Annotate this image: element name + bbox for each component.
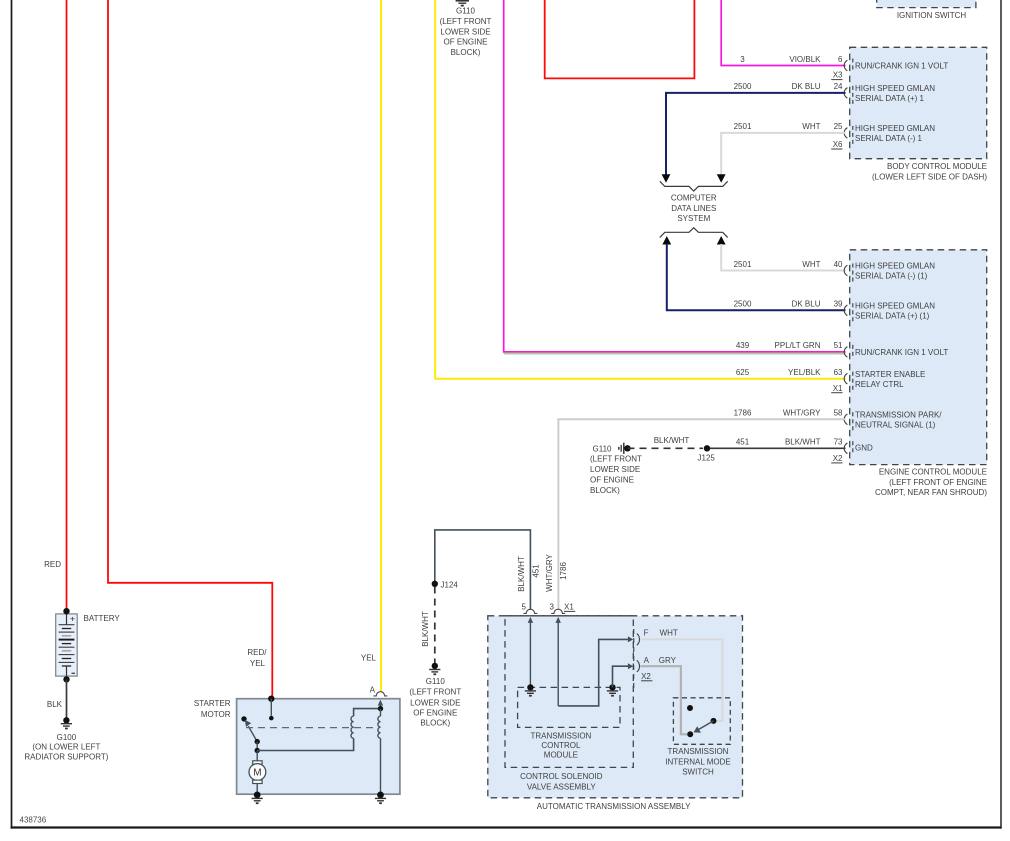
starter pin A (370, 685, 388, 711)
wire RED battery positive feed (66, 0, 68, 611)
starter ground left (252, 792, 263, 804)
svg-text:BLK/WHT: BLK/WHT (654, 436, 690, 445)
junction J125 (698, 445, 716, 463)
svg-text:+: + (70, 613, 75, 623)
svg-text:HIGH SPEED GMLAN: HIGH SPEED GMLAN (855, 84, 935, 93)
connector pin F (628, 629, 678, 646)
label starter motor (194, 699, 231, 719)
battery B1 (56, 608, 77, 683)
svg-text:A: A (370, 685, 376, 694)
ECM pin 51 (736, 341, 948, 359)
label battery (84, 614, 121, 623)
svg-text:6: 6 (838, 55, 843, 64)
ground G110 mid (sideways) (593, 443, 624, 454)
svg-text:NEUTRAL SIGNAL (1): NEUTRAL SIGNAL (1) (855, 421, 936, 430)
wire BLK/WHT 451 to ECM pin 73 (710, 447, 846, 449)
svg-text:BLK/WHT: BLK/WHT (421, 611, 430, 647)
svg-text:RED: RED (44, 560, 61, 569)
svg-text:SERIAL DATA (+) (1): SERIAL DATA (+) (1) (855, 311, 930, 320)
TCM ground left (525, 684, 536, 696)
mode switch contact P (687, 705, 693, 711)
mechanical link dashed (246, 727, 374, 729)
svg-text:3: 3 (740, 55, 745, 64)
svg-text:(LOWER LEFT SIDE OF DASH): (LOWER LEFT SIDE OF DASH) (872, 172, 987, 181)
svg-text:SERIAL DATA (-) 1: SERIAL DATA (-) 1 (855, 134, 923, 143)
svg-text:63: 63 (834, 368, 843, 377)
svg-text:OF ENGINE: OF ENGINE (443, 38, 487, 47)
body control module U1 (850, 47, 987, 158)
svg-text:MOTOR: MOTOR (201, 710, 231, 719)
svg-text:VIO/BLK: VIO/BLK (789, 55, 821, 64)
svg-text:MODULE: MODULE (544, 751, 578, 760)
svg-text:58: 58 (834, 409, 843, 418)
svg-text:BLOCK): BLOCK) (590, 486, 620, 495)
wire WHT/GRY 1786 ECM to transmission pin 3 (545, 419, 846, 610)
svg-text:BODY CONTROL MODULE: BODY CONTROL MODULE (887, 162, 987, 171)
label control solenoid valve assembly (520, 772, 603, 791)
label G110 top (440, 7, 492, 58)
svg-text:CONTROL SOLENOID: CONTROL SOLENOID (520, 772, 603, 781)
ECM pin 39 (734, 300, 936, 325)
wire BLK battery to G100 (47, 679, 67, 717)
svg-text:COMPUTER: COMPUTER (671, 193, 717, 202)
svg-text:(LEFT FRONT: (LEFT FRONT (409, 688, 461, 697)
svg-text:DATA LINES: DATA LINES (671, 204, 716, 213)
svg-text:5: 5 (521, 603, 526, 612)
svg-text:24: 24 (834, 82, 843, 91)
transmission pin 3 X1 (549, 603, 575, 706)
svg-text:BLOCK): BLOCK) (420, 718, 450, 727)
svg-text:J124: J124 (441, 580, 459, 589)
svg-text:STARTER ENABLE: STARTER ENABLE (855, 370, 925, 379)
svg-text:HIGH SPEED GMLAN: HIGH SPEED GMLAN (855, 262, 935, 271)
wire WHT F to mode switch (640, 639, 722, 721)
svg-text:BATTERY: BATTERY (84, 614, 121, 623)
svg-text:1786: 1786 (559, 562, 568, 580)
svg-text:BLK/WHT: BLK/WHT (517, 556, 526, 592)
svg-text:73: 73 (834, 438, 843, 447)
label transmission internal mode switch (665, 747, 731, 777)
svg-text:LOWER SIDE: LOWER SIDE (440, 27, 490, 36)
starter ground right (375, 792, 386, 804)
svg-text:PPL/LT GRN: PPL/LT GRN (775, 341, 821, 350)
svg-text:X3: X3 (833, 71, 843, 80)
starter motor M (249, 751, 266, 795)
svg-text:WHT: WHT (802, 122, 820, 131)
svg-text:(ON LOWER LEFT: (ON LOWER LEFT (32, 743, 100, 752)
wire BLK/WHT dashed J124 to G110 (421, 587, 435, 664)
BCM pin 6 X3 (740, 55, 948, 80)
label body control module (872, 162, 987, 181)
svg-text:2500: 2500 (734, 300, 752, 309)
svg-text:3: 3 (549, 603, 554, 612)
svg-text:451: 451 (736, 438, 750, 447)
svg-text:438736: 438736 (20, 816, 47, 825)
wire VIO/BLK 3 run/crank ign 1 volt (721, 0, 845, 66)
svg-text:OF ENGINE: OF ENGINE (590, 476, 634, 485)
svg-text:(LEFT FRONT OF ENGINE: (LEFT FRONT OF ENGINE (889, 478, 987, 487)
wire DK BLU 2500 from data lines to ECM pin 39 (662, 236, 845, 310)
wire PPL/LT GRN 439 run/crank ign (504, 0, 846, 354)
automatic transmission assembly box (488, 616, 743, 798)
starter switch blade (245, 720, 260, 744)
svg-text:51: 51 (834, 341, 843, 350)
svg-text:G110: G110 (426, 677, 446, 686)
svg-text:X1: X1 (833, 384, 843, 393)
svg-text:439: 439 (736, 341, 750, 350)
wire DK BLU 2500 from BCM to data lines (662, 93, 846, 183)
svg-text:X6: X6 (833, 140, 843, 149)
svg-text:RUN/CRANK IGN 1 VOLT: RUN/CRANK IGN 1 VOLT (855, 61, 948, 70)
svg-text:G100: G100 (57, 733, 77, 742)
svg-text:YEL/BLK: YEL/BLK (788, 368, 821, 377)
svg-text:WHT/GRY: WHT/GRY (783, 409, 821, 418)
label engine control module (875, 467, 987, 497)
svg-text:LOWER SIDE: LOWER SIDE (590, 465, 640, 474)
junction J124 (432, 580, 459, 589)
svg-text:HIGH SPEED GMLAN: HIGH SPEED GMLAN (855, 124, 935, 133)
svg-text:(LEFT FRONT: (LEFT FRONT (440, 17, 492, 26)
svg-text:G110: G110 (456, 7, 476, 16)
wire BLK/WHT 451 TCM ground run (435, 530, 541, 610)
wire GRY A to mode switch (640, 666, 687, 734)
svg-text:451: 451 (531, 564, 540, 578)
svg-text:25: 25 (834, 122, 843, 131)
svg-text:G110: G110 (593, 444, 613, 453)
svg-text:WHT: WHT (660, 629, 678, 638)
svg-text:DK BLU: DK BLU (792, 300, 821, 309)
BCM pin 25 X6 (734, 122, 936, 149)
svg-text:BLK: BLK (47, 700, 63, 709)
ground G110 top (cut off) (456, 1, 469, 6)
svg-text:SWITCH: SWITCH (682, 768, 714, 777)
svg-text:625: 625 (736, 368, 750, 377)
svg-text:2500: 2500 (734, 82, 752, 91)
wire YEL to starter pin A (380, 0, 382, 692)
svg-text:RADIATOR SUPPORT): RADIATOR SUPPORT) (24, 752, 108, 761)
svg-text:SERIAL DATA (-) (1): SERIAL DATA (-) (1) (855, 272, 928, 281)
transmission internal mode switch box (673, 698, 730, 745)
starter solenoid input node (268, 696, 274, 721)
svg-text:ENGINE CONTROL MODULE: ENGINE CONTROL MODULE (879, 467, 987, 476)
svg-text:DK BLU: DK BLU (792, 82, 821, 91)
svg-text:LOWER SIDE: LOWER SIDE (410, 698, 460, 707)
svg-text:AUTOMATIC TRANSMISSION ASSEMBL: AUTOMATIC TRANSMISSION ASSEMBLY (537, 802, 691, 811)
svg-text:J125: J125 (698, 454, 716, 463)
label G110 mid location (590, 455, 642, 496)
drawing number 438736 (20, 816, 47, 825)
svg-text:(LEFT FRONT: (LEFT FRONT (590, 455, 642, 464)
pull-in coil L1 (351, 709, 381, 739)
mode switch connector dashed line (633, 629, 635, 689)
computer data lines system brace upper (660, 181, 728, 191)
control solenoid valve assembly box (505, 616, 633, 768)
wire WHT 2501 from BCM to data lines (717, 133, 846, 183)
svg-text:WHT/GRY: WHT/GRY (545, 554, 554, 592)
svg-text:IGNITION SWITCH: IGNITION SWITCH (897, 11, 967, 20)
wire RED/YEL starter solenoid feed (108, 0, 272, 699)
svg-text:BLK/WHT: BLK/WHT (785, 438, 821, 447)
svg-text:40: 40 (834, 260, 843, 269)
svg-text:SYSTEM: SYSTEM (677, 214, 710, 223)
svg-text:VALVE ASSEMBLY: VALVE ASSEMBLY (527, 782, 597, 791)
svg-text:GRY: GRY (659, 656, 677, 665)
svg-text:RUN/CRANK IGN 1 VOLT: RUN/CRANK IGN 1 VOLT (855, 348, 948, 357)
label transmission control module (530, 731, 591, 759)
svg-text:CONTROL: CONTROL (541, 741, 581, 750)
BCM pin 24 (734, 82, 936, 107)
starter switch to motor node (255, 742, 260, 754)
svg-text:HIGH SPEED GMLAN: HIGH SPEED GMLAN (855, 301, 935, 310)
TCM ground right + wire to pin A (607, 666, 629, 696)
label automatic transmission assembly (537, 802, 691, 811)
svg-text:YEL: YEL (250, 659, 266, 668)
ECM pin 58 (734, 409, 943, 434)
ignition switch (877, 0, 976, 20)
svg-text:A: A (644, 656, 650, 665)
svg-text:F: F (644, 629, 649, 638)
ECM pin 73 X2 (736, 438, 873, 463)
svg-text:1786: 1786 (734, 409, 752, 418)
ground G110 bottom (409, 663, 461, 728)
svg-text:INTERNAL MODE: INTERNAL MODE (665, 757, 731, 766)
engine control module U2 (850, 250, 987, 465)
svg-text:39: 39 (834, 300, 843, 309)
svg-text:TRANSMISSION: TRANSMISSION (668, 747, 729, 756)
svg-text:WHT: WHT (802, 260, 820, 269)
label YEL (361, 654, 377, 663)
svg-text:YEL: YEL (361, 654, 377, 663)
ECM pin 63 X1 (736, 368, 926, 393)
wire RED ignition switch loop (545, 0, 695, 78)
wire switch to pull-in coil (257, 738, 353, 750)
label RED/YEL (247, 648, 267, 668)
svg-text:X1: X1 (564, 603, 574, 612)
connector pin A X2 (628, 656, 677, 681)
svg-text:BLOCK): BLOCK) (451, 48, 481, 57)
wire pin3 to mode switch F (558, 639, 628, 706)
starter motor box (237, 699, 400, 795)
transmission control module box (518, 687, 620, 727)
computer data lines system brace lower (660, 228, 728, 238)
mode switch blade (687, 718, 716, 737)
wire YEL/BLK 625 starter enable relay ctrl (435, 0, 845, 379)
svg-text:RED/: RED/ (247, 648, 267, 657)
svg-text:GND: GND (855, 444, 873, 453)
svg-text:STARTER: STARTER (194, 699, 231, 708)
svg-text:M: M (253, 768, 261, 779)
svg-text:OF ENGINE: OF ENGINE (413, 709, 457, 718)
label RED (44, 560, 61, 569)
svg-text:X2: X2 (641, 672, 651, 681)
starter switch contact (241, 716, 246, 721)
svg-text:2501: 2501 (734, 260, 752, 269)
svg-text:X2: X2 (833, 454, 843, 463)
ground G100 (24, 717, 108, 761)
svg-text:2501: 2501 (734, 122, 752, 131)
svg-text:TRANSMISSION: TRANSMISSION (530, 731, 591, 740)
svg-text:TRANSMISSION PARK/: TRANSMISSION PARK/ (855, 410, 942, 419)
ECM pin 40 (734, 260, 936, 285)
svg-text:RELAY CTRL: RELAY CTRL (855, 380, 904, 389)
wire WHT 2501 from data lines to ECM pin 40 (717, 236, 846, 271)
transmission pin 5 (521, 603, 537, 688)
label computer data lines system (671, 193, 717, 223)
wire BLK/WHT dashed G110 to J125 (624, 436, 703, 451)
svg-text:COMPT, NEAR FAN SHROUD): COMPT, NEAR FAN SHROUD) (875, 488, 987, 497)
svg-text:SERIAL DATA (+) 1: SERIAL DATA (+) 1 (855, 94, 925, 103)
hold-in coil L2 (378, 709, 381, 795)
